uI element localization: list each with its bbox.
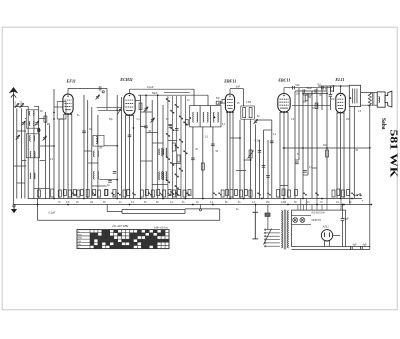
capacitor C47: [113, 172, 117, 174]
mains switch: [252, 212, 258, 239]
IF coil L15: [213, 112, 218, 122]
wire: [303, 94, 312, 96]
capacitor C31: [351, 246, 353, 250]
oscillator coil L10: [159, 172, 164, 180]
resistor R19: [77, 190, 80, 197]
coil can 3: [93, 135, 104, 146]
wire: [243, 119, 245, 198]
resistor R17: [68, 190, 71, 197]
bus rail step: [185, 208, 220, 210]
coil L4: [30, 151, 35, 157]
resistor R51: [342, 190, 345, 197]
wire: [141, 126, 147, 128]
IF transformer can box: [190, 106, 221, 127]
resistor R46: [282, 189, 285, 196]
node junction: [116, 145, 118, 147]
wire: [121, 97, 123, 199]
antenna coil L2: [29, 122, 34, 126]
divider box: [241, 106, 255, 119]
wire: [298, 88, 300, 91]
wire: [22, 160, 27, 162]
wire: [229, 112, 231, 198]
node junction: [369, 147, 371, 149]
wire: [259, 140, 261, 199]
field resistor zigzag: [368, 93, 371, 107]
wire: [202, 127, 204, 199]
wire: [141, 111, 153, 113]
wire: [312, 167, 317, 169]
node junction: [343, 204, 345, 206]
wire: [97, 115, 99, 199]
power unit box: [292, 210, 346, 246]
wire: [21, 108, 23, 198]
wire: [97, 106, 122, 108]
svg-text:EBC11: EBC11: [277, 77, 290, 82]
capacitor C21: [322, 86, 324, 90]
trimmer capacitor C5: [16, 135, 20, 140]
node junction: [53, 198, 55, 200]
capacitor C41: [175, 129, 179, 131]
trimmer on top wire: [99, 86, 104, 93]
wire: [199, 106, 201, 127]
resistor R48: [295, 190, 298, 196]
wire: [303, 93, 327, 95]
wire: [151, 100, 153, 199]
wire: [140, 95, 142, 198]
wire: [342, 220, 344, 246]
trimmer capacitor C11: [254, 120, 258, 125]
potentiometer R22: [249, 150, 252, 158]
resistor R8: [216, 101, 221, 104]
ground rail (upper): [28, 198, 362, 200]
resistor R31: [157, 190, 160, 196]
wire: [17, 182, 25, 184]
svg-text:0,1µF: 0,1µF: [147, 86, 154, 89]
wire: [40, 145, 54, 147]
heater wires: [292, 215, 312, 217]
wire: [138, 94, 208, 96]
node junction: [333, 85, 335, 87]
trimmer capacitor C8: [144, 107, 148, 112]
capacitor C12: [258, 151, 262, 153]
resistor R3: [139, 103, 142, 110]
svg-text:EBF11: EBF11: [223, 79, 236, 84]
ground rail (lower): [14, 204, 372, 206]
node junction: [239, 137, 241, 139]
node junction: [192, 204, 194, 206]
tube ECH11: [124, 94, 135, 116]
wire: [33, 110, 35, 199]
wire: [279, 112, 281, 199]
coil L12: [162, 172, 167, 180]
wire: [294, 91, 296, 199]
wire: [168, 140, 177, 142]
capacitor C46: [270, 141, 274, 143]
wire: [283, 147, 371, 149]
svg-text:Saba: Saba: [380, 118, 386, 130]
svg-text:2M: 2M: [47, 123, 50, 126]
wire: [152, 142, 163, 144]
node junction: [255, 204, 257, 206]
node junction: [326, 93, 328, 95]
node junction: [185, 198, 187, 200]
node junction: [302, 147, 304, 149]
node junction: [133, 127, 135, 129]
wire antenna down: [13, 106, 15, 204]
wire: [329, 96, 331, 110]
wire: [34, 188, 50, 190]
node junction: [53, 145, 55, 147]
node junction: [340, 85, 342, 87]
wire: [333, 86, 335, 92]
core lines: [373, 93, 374, 106]
capacitor C40: [169, 126, 173, 128]
wire: [162, 105, 164, 199]
resistor R21: [86, 190, 89, 198]
wire: [311, 91, 313, 95]
wire tube3 top: [229, 89, 231, 94]
rectifier tube AZ11: [321, 230, 340, 247]
bus rail mid: [107, 205, 122, 212]
resistor R38: [221, 190, 224, 197]
resistor R26: [123, 190, 126, 197]
wire: [48, 125, 50, 199]
wire: [116, 95, 118, 199]
wire: [284, 87, 332, 89]
wire: [14, 105, 29, 107]
wire: [125, 115, 127, 199]
resistor R23: [98, 190, 101, 197]
svg-text:1M: 1M: [323, 144, 326, 147]
capacitor C19: [303, 171, 307, 173]
wire: [207, 95, 209, 105]
node junction: [243, 198, 245, 200]
resistor R10: [331, 86, 334, 91]
resistor R13: [38, 190, 41, 197]
bus rail long: [38, 219, 220, 221]
wire: [283, 112, 285, 198]
tube EL11: [336, 93, 346, 113]
wire: [84, 150, 92, 152]
wire: [68, 87, 107, 89]
node junction: [212, 204, 214, 206]
capacitor C18: [295, 162, 299, 164]
node junction: [321, 198, 323, 200]
wire: [295, 90, 327, 92]
wire: [14, 165, 27, 167]
resistor R39: [226, 190, 229, 196]
svg-text:+: +: [362, 199, 364, 203]
resistor R20: [243, 108, 246, 118]
resistor R5: [177, 155, 180, 162]
resistor R21: [249, 108, 252, 118]
resistor R50: [337, 189, 340, 196]
B+ rail: [318, 85, 349, 87]
node junction: [340, 198, 342, 200]
node junction: [67, 204, 69, 206]
wire box bottom ext: [292, 248, 370, 250]
node junction: [349, 97, 351, 99]
resistor R14: [51, 189, 54, 197]
band table filled cells: [77, 230, 169, 249]
oscillator coil L9: [159, 149, 164, 155]
resistor R30: [151, 190, 154, 197]
svg-text:1M: 1M: [89, 129, 92, 131]
svg-text:ECH11: ECH11: [119, 77, 133, 82]
resistor R16: [63, 190, 66, 196]
wire: [361, 104, 378, 106]
wire: [17, 130, 27, 132]
wire: [267, 140, 269, 199]
wire: [172, 163, 181, 165]
capacitor C17: [315, 89, 317, 93]
wire: [236, 170, 246, 172]
trimmer capacitor C1: [15, 104, 19, 109]
node junction: [129, 204, 131, 206]
wire: [27, 106, 29, 198]
wire: [92, 185, 107, 187]
wire: [16, 108, 18, 198]
trimmer capacitor C9: [151, 118, 155, 123]
wire: [342, 205, 344, 219]
node junction: [316, 204, 318, 206]
antenna: [10, 88, 17, 107]
node junction: [53, 112, 55, 114]
svg-text:0,5M: 0,5M: [246, 102, 251, 104]
wire: [157, 95, 159, 198]
wire can to tube3 grid: [218, 100, 225, 104]
wire: [168, 124, 172, 126]
resistor R40: [230, 190, 233, 198]
svg-text:EF11: EF11: [66, 78, 76, 83]
wire: [99, 179, 117, 181]
resistor R43: [245, 190, 248, 196]
wire: [292, 104, 330, 106]
resistor R1: [44, 116, 47, 122]
wire: [54, 106, 63, 108]
wire: [271, 120, 273, 199]
wire: [121, 210, 123, 214]
wire: [37, 199, 39, 221]
resistor R49: [332, 190, 335, 197]
svg-text:581 WK: 581 WK: [387, 130, 399, 179]
wire: [280, 185, 288, 187]
wire: [98, 109, 122, 111]
wire: [263, 130, 265, 199]
wire tube1 top cap: [67, 88, 69, 94]
resistor R36: [183, 190, 186, 197]
wire: [221, 102, 226, 104]
resistor R15: [58, 190, 61, 197]
speaker field coil L16: [379, 97, 380, 103]
svg-text:50/60 Hz: 50/60 Hz: [312, 219, 322, 222]
wire: [192, 127, 194, 199]
bus rail box lower: [122, 213, 185, 215]
node junction: [370, 204, 372, 206]
wire: [243, 89, 245, 106]
bus rail box upper: [122, 209, 185, 211]
wire: [44, 112, 46, 199]
tuning arrow: [117, 109, 120, 115]
wire: [63, 114, 65, 199]
wire: [40, 160, 46, 162]
capacitor C16: [303, 89, 305, 93]
node junction: [287, 204, 289, 206]
voltage selector taps: [264, 229, 280, 247]
dial lamp 1: [293, 218, 298, 223]
wire: [250, 119, 252, 198]
coil L5: [30, 173, 35, 179]
svg-text:50pF: 50pF: [307, 87, 313, 90]
svg-text:4µF: 4µF: [353, 243, 358, 246]
resistor R25: [113, 190, 116, 198]
fuse: [265, 213, 270, 216]
coil L8: [94, 171, 99, 179]
wire: [232, 112, 234, 199]
wire: [83, 95, 85, 199]
node junction: [202, 198, 204, 200]
tone switch: [354, 193, 361, 196]
node junction: [157, 94, 159, 96]
wire: [326, 86, 328, 199]
capacitor C32: [361, 246, 363, 250]
resistor R22: [93, 190, 96, 196]
svg-text:1M: 1M: [90, 202, 93, 204]
wire: [71, 114, 73, 199]
node junction: [261, 198, 263, 200]
node junction: [116, 179, 118, 181]
wire: [307, 93, 309, 175]
wire: [329, 86, 331, 95]
wire: [34, 105, 39, 107]
switch contacts: [166, 98, 187, 194]
node junction: [83, 198, 85, 200]
wire: [164, 92, 190, 94]
capacitor C48: [108, 181, 112, 183]
wire: [255, 124, 257, 198]
wire: [152, 184, 168, 186]
resistor R42: [240, 190, 243, 197]
wire: [361, 92, 378, 94]
wire: [146, 132, 158, 134]
wire: [311, 91, 313, 199]
wire speaker down: [369, 105, 371, 250]
resistor R45: [277, 190, 280, 198]
wire: [130, 88, 195, 90]
wire: [59, 118, 64, 120]
node junction: [53, 118, 55, 120]
node junction: [214, 117, 216, 119]
node junction: [302, 93, 304, 95]
lamp feed wires: [297, 205, 299, 211]
node junction: [250, 159, 252, 161]
resistor R4: [172, 143, 175, 151]
ground symbol: [12, 205, 17, 213]
node junction: [351, 198, 353, 200]
wire: [256, 119, 272, 121]
wire: [58, 119, 60, 199]
node junction: [283, 147, 285, 149]
wire: [212, 127, 214, 199]
resistor R52: [347, 190, 350, 196]
electrolytic capacitor: [37, 128, 40, 133]
wire: [104, 145, 117, 147]
resistor R27: [127, 190, 130, 196]
wire: [287, 112, 289, 199]
wire: [88, 162, 98, 164]
wire: [129, 115, 131, 198]
wire: [135, 100, 140, 102]
resistor R32: [163, 190, 166, 197]
wire: [295, 159, 299, 161]
coil L7: [94, 151, 99, 157]
capacitor C10: [144, 126, 148, 128]
svg-text:4,5 W/2,5 W: 4,5 W/2,5 W: [312, 212, 326, 215]
wire: [91, 107, 93, 199]
wire: [343, 113, 345, 199]
resistor R11: [315, 103, 318, 109]
wire: [336, 113, 338, 199]
trimmer capacitor C7: [96, 95, 100, 100]
output transformer T2: [349, 85, 360, 106]
svg-text:AZ11: AZ11: [322, 224, 330, 228]
coil L3: [30, 135, 35, 141]
wire: [145, 95, 147, 198]
wire: [210, 106, 212, 127]
capacitor C42: [191, 158, 195, 160]
coil L11: [162, 148, 167, 156]
tube EBC11: [278, 94, 290, 113]
resistor R9: [305, 95, 308, 101]
wire: [353, 107, 355, 199]
resistor R47: [288, 190, 291, 197]
wire: [24, 121, 26, 199]
trimmer capacitor C6: [43, 136, 47, 141]
band filter can 2: [26, 134, 39, 158]
resistor R35: [178, 190, 181, 196]
dial lamp 2: [300, 218, 305, 223]
wire: [184, 210, 186, 214]
node junction: [140, 198, 142, 200]
wire: [25, 118, 26, 120]
coil can behind tube U1: [57, 102, 66, 120]
wire mains feed: [254, 205, 256, 213]
resistor R7: [185, 120, 188, 126]
node junction: [326, 147, 328, 149]
switch contact row: [73, 193, 355, 196]
wire: [264, 129, 272, 131]
svg-text:+: +: [361, 193, 363, 197]
svg-text:29–497 kHz: 29–497 kHz: [112, 224, 129, 228]
node junction: [116, 198, 118, 200]
resistor R24: [105, 190, 108, 196]
node junction: [145, 94, 147, 96]
resistor R37: [188, 190, 191, 196]
wire: [239, 120, 241, 199]
resistor R33: [168, 190, 171, 196]
phono jack: [199, 205, 201, 212]
oscillator coil L6: [96, 137, 97, 144]
svg-text:4µF: 4µF: [363, 243, 368, 246]
svg-text:5nF: 5nF: [236, 86, 241, 89]
wire: [219, 209, 221, 220]
wire: [132, 115, 134, 199]
resistor R2: [105, 190, 108, 196]
capacitor C15: [293, 86, 295, 90]
trimmer capacitor C3: [21, 121, 25, 126]
capacitor C45: [82, 131, 86, 133]
IF coil L13: [193, 112, 198, 122]
